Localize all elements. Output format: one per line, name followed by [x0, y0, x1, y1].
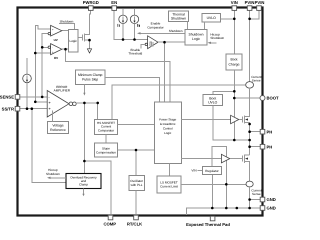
svg-text:Shutdown: Shutdown	[60, 19, 74, 23]
svg-text:PH: PH	[267, 144, 273, 149]
svg-text:UV: UV	[54, 38, 58, 42]
svg-text:EN: EN	[111, 0, 117, 5]
wire: VIN regulator staple rail	[212, 146, 226, 208]
wire: VIN pin rail	[233, 10, 235, 54]
pin Exposed Thermal Pad	[186, 216, 230, 227]
svg-text:Clamp: Clamp	[79, 183, 88, 187]
wire: VSENSE pin to error amplifier inverting input	[20, 96, 47, 98]
wire: HS comparator output to power stage	[118, 124, 155, 126]
wire: power stage to HS gate driver	[181, 119, 231, 121]
svg-text:Boot: Boot	[209, 96, 216, 100]
svg-text:-: -	[52, 33, 53, 36]
wire: BOOT pin connection	[234, 97, 260, 99]
transistor HS power MOSFET	[243, 88, 250, 124]
wire: hiccup shutdown arrow from overload recovery	[46, 168, 66, 179]
pin PWRGD	[83, 0, 99, 10]
IC outline border	[18, 8, 263, 216]
svg-text:Compensation: Compensation	[96, 150, 116, 154]
current source SS/TR charge	[23, 74, 32, 109]
svg-text:Minimum Clamp: Minimum Clamp	[78, 73, 103, 77]
pin COMP	[104, 215, 117, 226]
svg-text:UVLO: UVLO	[208, 101, 218, 105]
svg-text:Shutdown: Shutdown	[188, 33, 203, 37]
svg-text:BOOT: BOOT	[267, 96, 280, 101]
svg-text:Shutdown: Shutdown	[171, 17, 186, 21]
svg-text:PVIN: PVIN	[255, 0, 265, 5]
wire: shutdown stub into PWRGD logic	[59, 24, 74, 30]
wire: SS rail down to overload recovery	[32, 109, 66, 183]
wire: PVIN pins rail	[250, 10, 259, 82]
wire: thermal shutdown to shutdown logic	[187, 22, 189, 30]
box: Thermal Shutdown	[169, 11, 189, 22]
wire: LS current limit to LS current sense	[181, 183, 246, 185]
svg-text:Comparator: Comparator	[98, 128, 114, 132]
wire: boot rail from boot charge to boot uvlo tap and PH	[213, 70, 234, 140]
svg-text:Exposed Thermal Pad: Exposed Thermal Pad	[186, 222, 230, 227]
svg-text:OV: OV	[54, 56, 58, 60]
svg-text:Boot: Boot	[231, 58, 238, 62]
pin RT/CLK	[127, 215, 142, 226]
op-amp U4 UV power good comparator	[48, 25, 62, 42]
wire: UV comparator output to logic	[62, 30, 69, 32]
svg-text:COMP: COMP	[104, 222, 117, 227]
pin BOOT	[260, 96, 279, 101]
svg-text:Logic: Logic	[69, 39, 77, 43]
wire: SS/TR pin to error amplifier input	[20, 108, 47, 110]
wire: boot uvlo output down to PH node	[213, 106, 250, 141]
op-amp U3 error amplifier	[47, 85, 76, 117]
wire: slope comp to HS comparator	[105, 135, 107, 144]
node: VSENSE rail to UV/OV comparators	[35, 26, 50, 102]
wire: logic to PWRGD MOSFET gate	[78, 36, 83, 38]
box: Power Stage and Deadtime Control Logic	[155, 102, 182, 164]
box: Oscillator with PLL	[129, 176, 145, 191]
box: HS MOSFET Current Comparator	[95, 120, 118, 135]
current sense LS (bottom)	[246, 181, 262, 196]
ground symbol below Q1	[87, 49, 91, 53]
wire: shutdown signal arrow to Ih	[137, 29, 185, 35]
svg-text:GND: GND	[267, 197, 276, 202]
current sense HS (top)	[246, 75, 262, 88]
svg-text:Charge: Charge	[228, 62, 239, 66]
wire: PWRGD net (pin to MOSFET drain)	[84, 10, 90, 35]
current source Ip pullup	[118, 9, 128, 40]
box: Minimum Clamp Pulse Skip	[76, 70, 106, 85]
wire: UVLO to shutdown logic	[204, 22, 206, 30]
wire: OV comparator output to logic and power stage	[62, 49, 170, 102]
wire: minimum clamp arrow to COMP node	[83, 85, 85, 96]
svg-text:Pulse Skip: Pulse Skip	[82, 78, 98, 82]
box: LS MOSFET Current Limit	[157, 176, 181, 193]
text: Shutdown label top left	[60, 19, 74, 23]
wire: threshold rail to UV/OV bubbles	[42, 34, 48, 97]
svg-text:PWRGD: PWRGD	[83, 0, 99, 5]
svg-text:Threshold: Threshold	[128, 52, 142, 56]
svg-text:Logic: Logic	[164, 131, 172, 135]
wire: EN pin net to enable comparator	[114, 10, 147, 40]
svg-text:Power Stage: Power Stage	[159, 118, 177, 122]
svg-text:Sense: Sense	[252, 78, 261, 82]
wire: hiccup shutdown arrow right	[208, 32, 225, 44]
wire: power stage to LS mosfet current limit	[168, 164, 170, 177]
wire: minimum clamp output to power stage	[105, 78, 160, 103]
wire: UVLO to VIN rail	[221, 18, 235, 20]
wire: regulator ground	[211, 175, 213, 209]
svg-text:& Deadtime: & Deadtime	[160, 122, 176, 126]
pin PH 1	[260, 129, 272, 134]
pin GND 1	[260, 197, 276, 202]
wire: enable comparator output to shutdown logic and power stage	[158, 42, 185, 102]
box: Boot Charge	[226, 54, 242, 70]
svg-text:AMPLIFIER: AMPLIFIER	[54, 88, 71, 92]
wire: enable threshold stub	[128, 44, 145, 55]
svg-text:Current Limit: Current Limit	[160, 185, 178, 189]
wire: power stage to LS gate driver	[181, 158, 221, 160]
wire: ground rail with GND pins	[186, 200, 260, 216]
svg-text:Shutdown: Shutdown	[46, 172, 60, 176]
pin EN	[111, 0, 117, 10]
wire: LS driver to LS FET gate	[230, 158, 243, 160]
pin GND 2	[260, 206, 276, 211]
wire: RT/CLK pin to oscillator	[135, 191, 137, 216]
svg-text:Logic: Logic	[192, 37, 200, 41]
wire: HS driver to HS FET gate	[239, 119, 243, 121]
transistor LS power MOSFET	[243, 154, 250, 181]
pin PVIN 2	[255, 0, 265, 10]
svg-text:Shutdown: Shutdown	[169, 29, 183, 33]
svg-text:Comparator: Comparator	[147, 25, 163, 29]
svg-text:RT/CLK: RT/CLK	[127, 222, 142, 227]
box: PWRGD Logic	[69, 30, 79, 53]
svg-text:Control: Control	[163, 127, 173, 131]
svg-text:VIN: VIN	[191, 169, 196, 173]
svg-text:Regulator: Regulator	[205, 169, 218, 173]
svg-text:Sense: Sense	[252, 192, 261, 196]
pin PH 2	[260, 144, 272, 149]
op-amp U2 enable comparator	[145, 22, 164, 49]
wire: HS current sense signal to HS current comparator	[112, 85, 246, 120]
buffer: LS gate driver	[221, 154, 229, 163]
pin VSENSE	[0, 95, 20, 100]
svg-text:Voltage: Voltage	[52, 124, 63, 128]
box: Regulator with VIN input	[191, 167, 221, 175]
current source Ih hysteresis pullup	[130, 9, 140, 40]
svg-text:VSENSE: VSENSE	[0, 95, 14, 100]
pin PVIN 1	[245, 0, 255, 10]
wire: SS charge current source vertical	[26, 58, 28, 74]
wire: overload recovery clamp arrow down	[82, 189, 84, 197]
wire: PH rail with pins	[250, 122, 261, 155]
wire: COMP node from error amplifier	[76, 103, 98, 120]
pin VIN	[231, 0, 238, 10]
transistor Q1 PWRGD open drain MOSFET	[83, 33, 90, 49]
svg-text:-: -	[52, 47, 53, 50]
box: Boot UVLO	[203, 95, 223, 106]
pin SS/TR	[2, 106, 20, 111]
svg-text:Shutdown: Shutdown	[210, 36, 224, 40]
node junction dots	[26, 18, 251, 210]
svg-text:PH: PH	[267, 129, 273, 134]
wire: LS source to ground rail	[249, 187, 251, 208]
wire: COMP node down to overload recovery and COMP pin	[84, 103, 111, 216]
box: Shutdown Logic	[185, 30, 207, 46]
wire: voltage reference to error amp	[52, 111, 54, 122]
box: Slope Compensation	[95, 143, 118, 157]
wire: slope compensation to power stage with oscillator tap	[118, 150, 155, 176]
svg-text:Reference: Reference	[50, 128, 66, 132]
op-amp U5 OV power good comparator	[48, 44, 62, 60]
svg-text:SS/TR: SS/TR	[2, 106, 14, 111]
box: Overload Recovery and Clamp	[66, 174, 101, 189]
svg-text:UVLO: UVLO	[207, 16, 217, 20]
svg-text:VIN: VIN	[231, 0, 238, 5]
buffer: HS gate driver	[231, 115, 239, 123]
box: Voltage Reference	[48, 122, 69, 134]
svg-text:GND: GND	[267, 206, 276, 211]
svg-text:with PLL: with PLL	[131, 183, 143, 187]
box: UVLO	[202, 14, 221, 23]
svg-text:PVIN: PVIN	[245, 0, 255, 5]
